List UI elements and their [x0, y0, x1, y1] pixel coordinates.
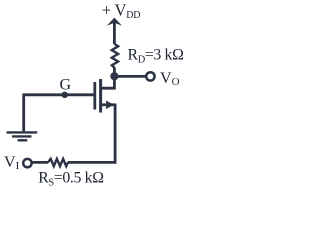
svg-text:VO: VO	[160, 70, 180, 88]
svg-text:RS=0.5 kΩ: RS=0.5 kΩ	[38, 169, 103, 188]
svg-text:RD=3 kΩ: RD=3 kΩ	[128, 46, 184, 65]
svg-text:G: G	[60, 77, 72, 94]
svg-text:+ VDD: + VDD	[102, 1, 141, 21]
svg-text:VI: VI	[4, 154, 20, 172]
